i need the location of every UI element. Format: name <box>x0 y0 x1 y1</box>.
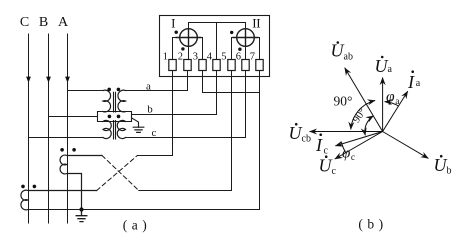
svg-text:5: 5 <box>221 51 226 62</box>
instrument box <box>160 16 270 77</box>
svg-text:I: I <box>171 16 175 31</box>
label phi-a <box>386 89 400 108</box>
wire a: PT secondary top to terminal 2 <box>126 90 188 92</box>
svg-text:1: 1 <box>163 51 168 62</box>
svg-text:U: U <box>289 123 303 143</box>
meter II voltage coil vertical <box>245 29 247 47</box>
svg-text:(b): (b) <box>358 217 387 232</box>
wire c: PT secondary bottom to terminal 6 <box>126 137 246 139</box>
arrow on phase A <box>65 77 70 83</box>
svg-text:ab: ab <box>344 52 353 63</box>
junction dot on ground bus <box>79 207 83 211</box>
svg-text:a: a <box>395 97 400 107</box>
op meter II circle <box>237 29 255 47</box>
svg-text:a: a <box>416 78 421 89</box>
meter I polarity dot upper <box>175 31 178 34</box>
label Ia <box>407 70 421 92</box>
arc 90 outer <box>351 101 375 130</box>
meter I polarity dot lower <box>181 47 184 50</box>
CT A secondary winding <box>60 155 102 209</box>
ground symbol at bus <box>76 210 87 222</box>
vector Ic <box>335 132 382 146</box>
wire common voltage top link <box>189 23 246 29</box>
CT C polarity dot right <box>33 185 37 189</box>
terminal 4 <box>213 60 220 71</box>
terminal 7 <box>256 60 263 71</box>
CT C secondary winding <box>21 190 97 210</box>
terminal 5 <box>228 60 235 71</box>
PT winding middle jog structure <box>98 112 132 122</box>
meter II polarity dot upper <box>230 31 233 34</box>
wire terminal 4 down to b <box>216 71 218 115</box>
svg-text:7: 7 <box>250 51 255 62</box>
wire terminal 3 down <box>202 71 204 93</box>
arc 90 inner <box>365 116 374 136</box>
wire ground bus <box>28 209 260 211</box>
terminal 1 <box>169 60 176 71</box>
arrow on phase B <box>46 77 51 83</box>
wire B to PT primary mid junction <box>49 116 98 118</box>
wire meter II voltage bottom to terminal 6 <box>245 46 247 59</box>
svg-text:3: 3 <box>193 51 198 62</box>
svg-text:b: b <box>147 103 153 115</box>
svg-text:c: c <box>351 153 355 163</box>
wire terminal 6 down to c <box>245 71 247 138</box>
label Uab <box>331 41 353 63</box>
arc phi-a <box>385 102 399 107</box>
arc phi-c <box>341 142 346 153</box>
meter I current coil line <box>176 37 200 39</box>
dashed crossover ascending <box>97 156 138 191</box>
terminal 2 <box>184 60 191 71</box>
svg-text:U: U <box>375 56 389 76</box>
wire ground diagonal from b point <box>132 118 139 127</box>
PT polarity dot top-right <box>117 88 121 92</box>
wire b: PT secondary mid to terminal 4 <box>132 114 217 116</box>
svg-text:I: I <box>407 72 415 92</box>
PT secondary winding right top <box>118 90 126 112</box>
ground symbol at PT b <box>133 127 144 132</box>
PT primary winding left bottom <box>103 120 111 138</box>
CT A polarity dot left <box>60 148 64 152</box>
svg-text:I: I <box>256 16 260 31</box>
wire meter I current coil to terminals 1,3 <box>173 38 203 60</box>
dashed crossover descending <box>102 156 139 191</box>
wire voltage common tap to terminal 4 <box>216 23 218 60</box>
wire crossover top right <box>137 155 172 157</box>
svg-text:I: I <box>315 135 323 155</box>
svg-text:U: U <box>434 155 448 175</box>
meter I voltage coil vertical <box>188 29 190 47</box>
svg-text:U: U <box>319 156 333 176</box>
vector Ua <box>382 78 384 132</box>
wire C to PT primary bottom <box>29 137 104 139</box>
vector Ia <box>383 91 408 131</box>
label Ua <box>375 56 393 76</box>
PT polarity dot mid-left <box>108 115 112 119</box>
PT polarity dot mid-right <box>117 115 121 119</box>
svg-text:90°: 90° <box>334 94 353 109</box>
svg-text:2: 2 <box>178 51 183 62</box>
wire terminal 1 down to crossover <box>172 71 174 156</box>
label Ucb <box>289 123 311 145</box>
wire jumper terminal 3 to 7 <box>203 92 260 94</box>
wire phase A vertical <box>67 34 69 223</box>
arrow on phase C <box>26 77 31 83</box>
wire terminal 5 down to crossover <box>231 71 233 191</box>
wire meter II current coil to terminals 5,7 <box>232 38 260 60</box>
CT A polarity dot right <box>72 148 76 152</box>
svg-text:6: 6 <box>236 51 241 62</box>
svg-text:A: A <box>58 15 69 30</box>
wire crossover bottom right <box>139 190 232 192</box>
wire phase C vertical <box>28 34 30 223</box>
label Ic <box>315 133 329 156</box>
svg-text:B: B <box>39 15 48 30</box>
svg-text:cb: cb <box>302 134 311 145</box>
wire A to PT primary top <box>68 90 104 92</box>
wire meter I voltage bottom to terminal 2 <box>188 46 190 59</box>
PT secondary winding right bottom <box>117 120 125 138</box>
svg-text:4: 4 <box>207 51 213 62</box>
svg-text:a: a <box>388 64 393 75</box>
wire terminal 2 down to a <box>187 71 189 91</box>
svg-text:90°: 90° <box>351 107 368 125</box>
PT primary winding left top <box>103 90 111 112</box>
label Ub <box>434 155 452 177</box>
label phi-c <box>342 146 355 163</box>
svg-text:b: b <box>447 166 452 177</box>
PT polarity dot top-left <box>107 88 111 92</box>
svg-text:φ: φ <box>386 89 395 106</box>
meter II current coil line <box>233 37 257 39</box>
vector Ucb <box>310 131 383 133</box>
vector Ub <box>383 132 429 159</box>
wire phase B vertical <box>48 34 50 223</box>
svg-text:c: c <box>332 166 337 177</box>
meter II polarity dot lower <box>238 48 241 51</box>
terminal 6 <box>242 60 249 71</box>
label Uc <box>319 155 337 177</box>
vector Uc <box>335 132 383 160</box>
svg-text:(a): (a) <box>123 218 151 233</box>
vector Uab <box>345 68 383 132</box>
terminal 3 <box>199 60 206 71</box>
PT core lines <box>114 92 116 139</box>
CT C polarity dot left <box>21 185 25 189</box>
svg-text:φ: φ <box>342 146 350 162</box>
svg-text:C: C <box>20 15 29 30</box>
wire terminal 7 down to ground bus <box>259 71 261 210</box>
op meter I circle <box>180 29 198 47</box>
